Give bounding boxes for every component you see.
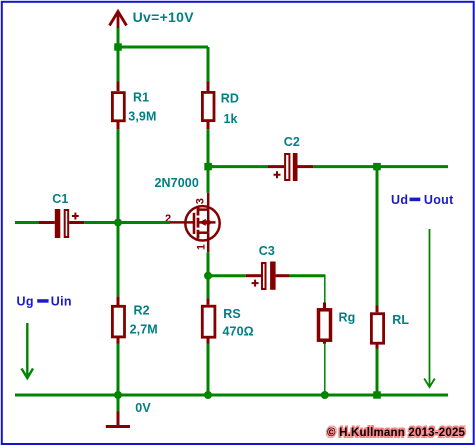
svg-text:3,9M: 3,9M <box>128 110 156 124</box>
transistor Q1 2N7000 <box>165 193 220 253</box>
wire: left rail x=118 (129.3)-(296.6) <box>117 129 120 296</box>
svg-text:R2: R2 <box>134 303 150 317</box>
svg-text:RD: RD <box>221 92 239 106</box>
measure arrow Ud (green) <box>424 229 435 387</box>
gate pin lead <box>170 221 194 224</box>
junction (377,166.6) square <box>373 163 381 170</box>
resistor R1 <box>112 82 156 130</box>
wire: RS bottom (208,343.5)-(208,395) <box>207 344 210 396</box>
capacitor C1 <box>15 192 84 238</box>
wire: RD rail x=208 (129.3)-(192.7) <box>207 129 210 192</box>
bottom stub <box>198 231 208 234</box>
wire: R2 bottom (118,343.5)-(118,395) <box>117 344 120 396</box>
resistor RL <box>371 306 409 349</box>
channel segments <box>197 207 200 216</box>
junction (324.8,395) round <box>321 391 329 399</box>
resistor RD <box>202 82 239 130</box>
body circle <box>185 206 219 240</box>
svg-text:C3: C3 <box>259 244 275 258</box>
wire: top rail horizontal (118,47)-(208,47) <box>118 46 208 49</box>
power arrow Uv (dark red) <box>110 12 127 29</box>
svg-text:Uin: Uin <box>51 295 72 309</box>
svg-text:2,7M: 2,7M <box>130 323 158 337</box>
svg-text:0V: 0V <box>135 401 151 415</box>
svg-text:© H.Kullmann 2013-2025: © H.Kullmann 2013-2025 <box>327 427 466 439</box>
junction (118,395) round <box>114 391 122 399</box>
right rail <box>207 210 210 233</box>
svg-text:3: 3 <box>195 198 207 204</box>
svg-text:Uout: Uout <box>424 193 454 207</box>
wire: RL bottom (377,348.5)-(377,395) <box>376 349 379 396</box>
junction (208,166.6) square <box>204 163 212 170</box>
resistor RS <box>202 298 253 343</box>
junction (118,47) square <box>114 43 122 50</box>
resistor R2 <box>112 297 157 344</box>
wire: (289.8,275.7)-(325,275.7) <box>290 274 325 277</box>
wire: Uv arrow shaft green (118,28)-(118,47) <box>117 28 120 47</box>
wire: drain horizontal right (313.2,166.6)-(448,166.6) <box>313 165 448 168</box>
top stub <box>198 208 208 211</box>
wire: source horizontal (208,275.7)-(245.7,275.7) <box>208 274 246 277</box>
wire: drain horizontal left (208,166.6)-(267.6,166.6) <box>208 165 268 168</box>
wire: source rail green (208,252.3)-(208,298.1) <box>207 252 210 298</box>
measure arrow Ug (green) <box>22 323 34 378</box>
svg-text:RS: RS <box>223 307 241 321</box>
junction (208,395) round <box>204 391 212 399</box>
capacitor C2 <box>268 135 314 181</box>
capacitor C3 <box>246 244 290 290</box>
svg-text:Ud: Ud <box>391 193 408 207</box>
resistor Rg <box>319 302 356 343</box>
wire: RD rail x=208 (47)-(81.5) <box>207 47 210 82</box>
pin 3 drain lead <box>207 193 210 210</box>
svg-text:2N7000: 2N7000 <box>155 176 199 190</box>
gate bar <box>193 213 196 234</box>
svg-text:Ug: Ug <box>17 295 34 309</box>
svg-text:R1: R1 <box>133 91 149 105</box>
svg-text:470Ω: 470Ω <box>223 325 254 339</box>
svg-text:C1: C1 <box>52 192 68 206</box>
junction (377,395) square <box>373 391 381 398</box>
wire: gate wire green (84.3,222.5)-(170,222.5) <box>84 221 170 224</box>
wire: thin drop x=325 (275.7)-(302.4) <box>324 275 326 303</box>
middle stub with arrow <box>199 221 216 224</box>
pin 1 source lead <box>207 233 210 253</box>
wire: Rg bottom thin (324.8,343.8)-(324.8,395) <box>324 344 326 395</box>
svg-text:Rg: Rg <box>339 311 356 325</box>
wire: RL rail green x=377 (166.6)-(305.5) <box>376 167 379 306</box>
svg-text:1k: 1k <box>224 112 238 126</box>
svg-text:Uv=+10V: Uv=+10V <box>133 9 195 25</box>
svg-text:RL: RL <box>392 313 409 327</box>
svg-text:1: 1 <box>195 244 207 250</box>
wire: bottom rail (15,395)-(448,395) <box>15 394 448 397</box>
junction (208,275.7) round <box>204 272 212 280</box>
wire: gate wire green (15,222.5)-(39,222.5) <box>15 221 39 224</box>
ground symbol <box>106 395 130 427</box>
copyright text <box>326 425 467 441</box>
junction (118,222.5) round <box>114 219 122 227</box>
wire: left rail x=118 (47)-(81.5) <box>117 47 120 82</box>
svg-text:C2: C2 <box>284 135 300 149</box>
